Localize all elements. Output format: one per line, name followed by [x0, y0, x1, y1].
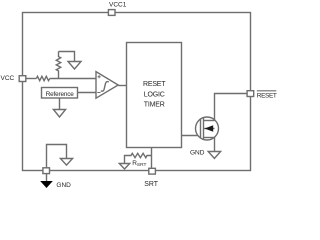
Q1 channel bar — [203, 118, 205, 140]
comparator U1 — [96, 72, 118, 99]
Q1 body arrow — [205, 125, 214, 131]
wire comparator output to logic block — [118, 85, 126, 87]
ground (open triangle, divider) — [68, 62, 81, 70]
Q1 drain tap — [204, 120, 215, 122]
ground (open triangle, reference) — [53, 110, 65, 118]
svg-text:Reference: Reference — [46, 91, 74, 98]
svg-text:LOGIC: LOGIC — [144, 91, 165, 98]
svg-text:SRT: SRT — [144, 181, 158, 188]
GND symbol (filled triangle) — [40, 181, 53, 188]
wire drain to RESET pad — [215, 94, 248, 121]
outer boundary box — [23, 13, 251, 171]
pad VCC1 — [108, 10, 115, 16]
RESET LOGIC TIMER block — [127, 43, 182, 148]
GND pad stem — [46, 174, 48, 181]
svg-text:VCC1: VCC1 — [109, 2, 127, 9]
wire node A to comparator + input — [50, 78, 96, 80]
Reference block — [42, 88, 78, 99]
RESET label overline — [257, 90, 277, 92]
svg-text:TIMER: TIMER — [144, 101, 165, 108]
hysteresis symbol — [101, 82, 109, 92]
pad VCC — [19, 76, 26, 82]
resistor R2 (divider lower leg, vertical) — [56, 52, 60, 79]
ground (open triangle, GND pad) — [60, 159, 72, 166]
ground (open triangle, RSRT) — [119, 164, 129, 170]
pad SRT — [149, 168, 156, 174]
pad RESET — [247, 91, 254, 97]
wire GND pad to internal ground — [47, 145, 67, 168]
wire source to ground — [214, 138, 216, 152]
resistor RSRT — [125, 153, 152, 163]
svg-text:VCC: VCC — [1, 75, 15, 82]
wire R2 top to ground arrow — [59, 52, 75, 62]
svg-text:RESET: RESET — [257, 93, 277, 100]
resistor R1 (input divider series) — [36, 76, 49, 80]
svg-text:GND: GND — [190, 150, 205, 157]
svg-text:GND: GND — [56, 182, 71, 189]
transistor Q1 (NMOS) body circle — [196, 117, 219, 140]
svg-text:RESET: RESET — [143, 81, 166, 88]
Q1 body tap — [204, 128, 215, 130]
comparator - input mark — [97, 92, 100, 94]
svg-text:RSRT: RSRT — [132, 160, 146, 168]
Q1 source tap — [204, 137, 215, 139]
Q1 gate bar — [200, 120, 202, 138]
wire logic block to MOSFET gate — [182, 135, 201, 137]
comparator + input mark — [98, 75, 101, 78]
ground (open triangle, MOSFET source) — [208, 152, 220, 159]
wire Reference to comparator - input — [78, 92, 97, 94]
wire logic block to SRT pad — [151, 148, 153, 169]
wire Reference to ground — [59, 98, 61, 110]
wire VCC pad to resistor R1 — [26, 78, 37, 80]
pad GND — [43, 168, 50, 174]
